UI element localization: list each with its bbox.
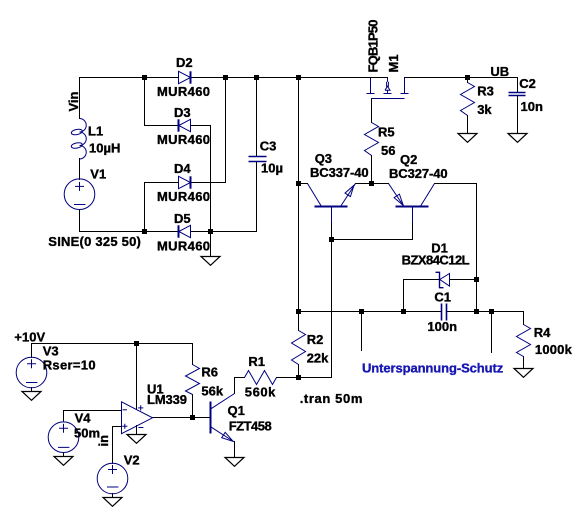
svg-text:.tran 50m: .tran 50m: [300, 391, 363, 406]
svg-text:1000k: 1000k: [535, 342, 573, 357]
svg-text:D3: D3: [174, 105, 191, 120]
svg-text:D4: D4: [174, 161, 191, 176]
svg-text:BC327-40: BC327-40: [389, 166, 448, 181]
svg-text:D5: D5: [174, 211, 191, 226]
svg-text:100n: 100n: [427, 319, 457, 334]
svg-text:R2: R2: [307, 332, 324, 347]
svg-text:Q3: Q3: [315, 151, 332, 166]
svg-text:BZX84C12L: BZX84C12L: [402, 253, 470, 268]
svg-text:560k: 560k: [245, 384, 276, 399]
svg-text:Q2: Q2: [400, 152, 417, 167]
svg-text:Unterspannung-Schutz: Unterspannung-Schutz: [362, 360, 504, 375]
svg-text:10µH: 10µH: [89, 141, 120, 156]
svg-text:LM339: LM339: [147, 392, 187, 407]
svg-text:M1: M1: [386, 54, 401, 72]
svg-text:in: in: [96, 435, 111, 447]
svg-text:V2: V2: [124, 453, 140, 468]
svg-text:+10V: +10V: [14, 329, 45, 344]
svg-text:V1: V1: [90, 166, 106, 181]
svg-text:R3: R3: [477, 84, 494, 99]
svg-text:C2: C2: [519, 76, 536, 91]
svg-text:SINE(0 325 50): SINE(0 325 50): [48, 234, 141, 249]
svg-text:10µ: 10µ: [261, 161, 283, 176]
svg-text:C3: C3: [260, 139, 277, 154]
svg-text:56k: 56k: [201, 383, 223, 398]
svg-text:R4: R4: [534, 325, 551, 340]
svg-text:MUR460: MUR460: [157, 132, 210, 147]
svg-text:22k: 22k: [307, 351, 329, 366]
svg-text:L1: L1: [88, 123, 103, 138]
svg-text:UB: UB: [490, 64, 509, 79]
svg-text:FQB1P50: FQB1P50: [366, 20, 381, 73]
svg-text:MUR460: MUR460: [157, 84, 210, 99]
svg-text:Rser=10: Rser=10: [43, 358, 96, 373]
svg-text:MUR460: MUR460: [157, 189, 210, 204]
svg-text:D2: D2: [176, 55, 193, 70]
svg-text:R5: R5: [378, 125, 395, 140]
svg-text:56: 56: [381, 143, 395, 158]
svg-text:R6: R6: [201, 365, 218, 380]
svg-text:3k: 3k: [477, 102, 492, 117]
svg-text:Vin: Vin: [66, 91, 81, 111]
svg-text:BC337-40: BC337-40: [310, 165, 369, 180]
svg-text:V3: V3: [43, 344, 59, 359]
svg-text:FZT458: FZT458: [229, 419, 272, 434]
svg-text:MUR460: MUR460: [157, 239, 210, 254]
svg-text:V4: V4: [75, 411, 92, 426]
svg-text:R1: R1: [248, 354, 265, 369]
svg-text:Q1: Q1: [228, 403, 245, 418]
svg-text:C1: C1: [434, 289, 451, 304]
svg-text:10n: 10n: [521, 99, 543, 114]
